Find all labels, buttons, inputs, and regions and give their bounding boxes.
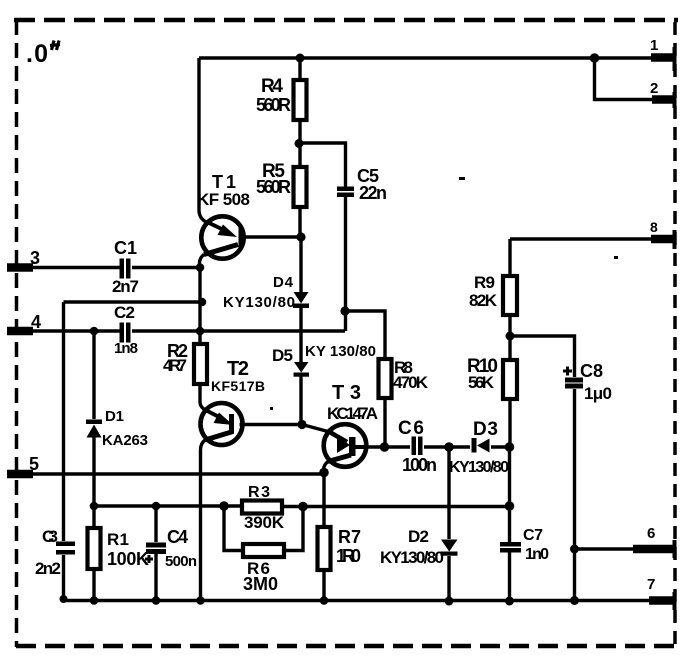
svg-text:D2: D2 [408,527,429,546]
svg-text:KY130/80: KY130/80 [223,294,295,311]
svg-text:1R0: 1R0 [336,546,361,566]
svg-text:2n7: 2n7 [112,277,139,296]
svg-text:2n2: 2n2 [35,559,61,578]
svg-text:3: 3 [30,248,40,268]
svg-text:KA263: KA263 [102,432,148,449]
svg-text:C1: C1 [114,238,137,258]
svg-text:C8: C8 [580,361,603,381]
svg-text:R7: R7 [338,527,361,547]
svg-text:82K: 82K [469,291,498,310]
svg-text:100K: 100K [107,549,149,569]
svg-text:R9: R9 [474,273,495,292]
svg-text:7: 7 [647,576,655,593]
svg-text:3M0: 3M0 [243,574,278,594]
svg-text:KC147A: KC147A [327,404,378,423]
svg-text:T2: T2 [227,358,249,380]
svg-text:R3: R3 [248,484,270,501]
svg-text:1: 1 [650,37,658,54]
svg-text:C3: C3 [42,527,58,546]
svg-text:5: 5 [29,454,39,474]
svg-text:8: 8 [650,219,658,235]
svg-text:KY130/80: KY130/80 [380,548,444,567]
svg-text:500n: 500n [165,553,197,570]
svg-text:1μ0: 1μ0 [584,384,612,403]
svg-text:470K: 470K [393,373,429,392]
svg-text:C7: C7 [523,527,543,544]
svg-text:390K: 390K [244,513,285,532]
svg-text:KF 508: KF 508 [197,190,250,209]
svg-text:2: 2 [650,80,658,97]
svg-text:560R: 560R [256,177,291,197]
svg-text:100n: 100n [402,455,437,475]
svg-text:4R7: 4R7 [163,356,187,375]
svg-text:D5: D5 [272,346,293,365]
svg-text:560R: 560R [256,95,291,115]
svg-text:D4: D4 [273,274,294,291]
svg-text:R1: R1 [107,530,129,549]
svg-text:D1: D1 [105,408,124,425]
svg-text:56K: 56K [468,373,495,392]
svg-text:KY130/80: KY130/80 [449,459,509,476]
svg-text:D3: D3 [473,419,498,440]
svg-text:22n: 22n [359,183,387,203]
svg-text:4: 4 [31,312,41,332]
svg-text:C6: C6 [398,418,424,439]
svg-text:.0: .0 [26,40,48,68]
svg-text:R4: R4 [261,76,283,97]
svg-text:1n0: 1n0 [525,546,549,563]
svg-text:KF517B: KF517B [211,378,265,394]
svg-text:1n8: 1n8 [114,340,138,357]
svg-text:KY 130/80: KY 130/80 [305,343,376,360]
svg-text:C4: C4 [167,527,188,547]
svg-text:6: 6 [647,525,655,542]
svg-text:C2: C2 [114,303,135,322]
